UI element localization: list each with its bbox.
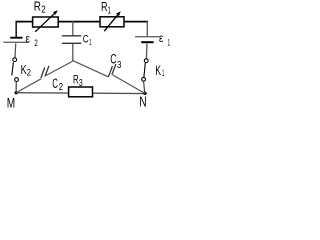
- wire top-right drop to E1: [146, 21, 148, 36]
- svg-text:C: C: [83, 33, 89, 45]
- capacitor C2: [41, 66, 49, 78]
- wire center node to C3: [73, 61, 109, 77]
- wire C1 top stem: [72, 21, 74, 36]
- wire C3 to node N: [113, 75, 145, 94]
- battery E2: [3, 38, 28, 43]
- node N: [143, 92, 146, 95]
- svg-text:C: C: [52, 76, 58, 91]
- wire M to C2: [16, 79, 41, 93]
- wire R1 to top-right corner: [124, 21, 148, 23]
- battery E1: [135, 37, 159, 43]
- capacitor C3: [108, 64, 116, 77]
- svg-text:M: M: [7, 96, 15, 112]
- svg-text:R: R: [101, 0, 108, 14]
- wire C1 to center node: [72, 44, 74, 61]
- wire E1 to K1: [145, 43, 148, 58]
- resistor R2: [33, 10, 59, 32]
- switch K2: [12, 58, 19, 82]
- svg-text:1: 1: [108, 5, 111, 16]
- svg-text:R: R: [34, 0, 41, 14]
- wire K1 to node N: [144, 82, 145, 94]
- node M: [15, 91, 18, 94]
- wire left rail upper: [15, 21, 17, 37]
- wire E2 to K2: [14, 43, 17, 57]
- wire K2 to node M: [15, 82, 17, 93]
- svg-text:2: 2: [27, 68, 31, 78]
- capacitor C1: [62, 36, 81, 44]
- svg-text:2: 2: [41, 4, 46, 15]
- svg-text:2: 2: [59, 82, 64, 93]
- resistor R3: [69, 87, 93, 97]
- svg-text:ε: ε: [159, 31, 164, 45]
- wire R2 to R1: [58, 21, 100, 23]
- svg-text:3: 3: [117, 60, 122, 71]
- resistor R1: [100, 11, 124, 31]
- wire bottom rail M to N: [16, 92, 147, 95]
- svg-text:K: K: [155, 63, 161, 78]
- svg-text:1: 1: [168, 38, 170, 48]
- svg-text:3: 3: [79, 78, 83, 89]
- svg-text:N: N: [139, 95, 146, 111]
- wire C2 to center node: [46, 61, 73, 76]
- svg-text:C: C: [110, 52, 116, 67]
- svg-text:1: 1: [162, 68, 164, 78]
- svg-text:2: 2: [34, 38, 38, 48]
- svg-text:ε: ε: [25, 31, 30, 45]
- svg-text:1: 1: [89, 37, 92, 47]
- switch K1: [142, 59, 148, 81]
- wire top-left horizontal: [16, 21, 34, 23]
